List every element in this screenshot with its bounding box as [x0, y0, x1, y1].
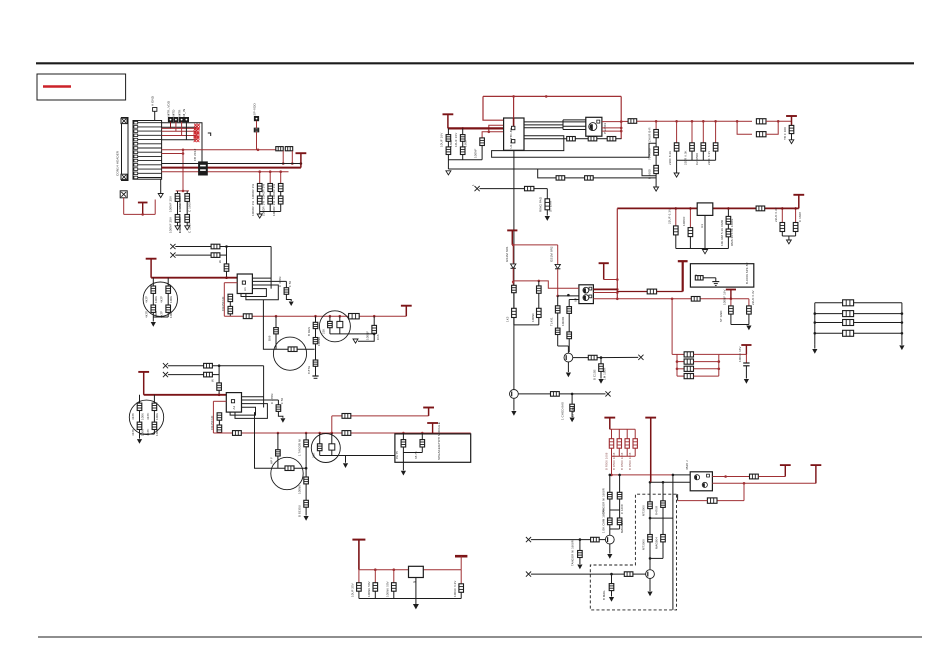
diode D1: [511, 264, 516, 268]
wire b2 col1 stem: [139, 395, 141, 403]
resistor RU6: [750, 474, 759, 479]
wire CV34 gnd stem: [788, 236, 790, 240]
wire RN3 mid: [280, 192, 282, 197]
wire R6 to row6: [256, 132, 258, 150]
resistor R316a: [313, 322, 318, 328]
capacitor CBC3: [392, 583, 397, 592]
node bl rail dots: [814, 312, 817, 315]
svg-text:4K7F: 4K7F: [131, 429, 135, 436]
resistor RD5: [555, 328, 560, 334]
IC A1: [237, 274, 252, 294]
wire lc bottom bus: [448, 159, 482, 161]
wire div link: [610, 509, 620, 511]
node rail2 b2: [329, 315, 332, 318]
feedback nest f2: [252, 280, 286, 282]
ground M2: [401, 471, 406, 476]
power T block2: [138, 372, 149, 395]
wire TRcol5 stem: [715, 121, 717, 143]
wire bccol3 stem: [393, 570, 395, 583]
svg-text:10UF 16V: 10UF 16V: [454, 133, 458, 147]
dashed boundary box: [590, 494, 676, 610]
wire row3 red: [162, 130, 196, 132]
wire br bottom rail: [612, 455, 636, 457]
resistor RBL3: [843, 320, 854, 326]
ground capcol1: [175, 226, 180, 230]
wire U6 out a cont: [758, 476, 785, 478]
svg-text:1: 1: [471, 184, 475, 186]
port P3: [174, 117, 178, 121]
wire U6 out red a: [712, 476, 749, 478]
wire RD7 down: [568, 339, 570, 353]
wire RB22-RB23: [218, 420, 220, 425]
connector J1 mounting pin bottom: [121, 174, 127, 179]
capacitor C1: [175, 194, 180, 202]
svg-text:100NK 50V: 100NK 50V: [367, 581, 371, 597]
wire rung3 right: [694, 368, 719, 370]
wire RT5 join: [766, 121, 778, 134]
wire busline1 black: [162, 163, 301, 165]
wire col276 down: [275, 334, 277, 349]
wire div cols top: [609, 475, 611, 492]
svg-text:MAGB04: MAGB04: [620, 521, 624, 533]
wire brcol4 stem: [634, 429, 636, 438]
wire red loop right: [620, 96, 622, 139]
node chassis: [141, 213, 144, 216]
svg-text:1M 100R: 1M 100R: [602, 368, 606, 380]
hatch row3 end: [194, 128, 200, 134]
svg-text:B R500 1608: B R500 1608: [612, 452, 616, 470]
wire brcol2 stem: [618, 429, 620, 438]
svg-text:C 470N: C 470N: [270, 394, 274, 404]
resistor RL3: [684, 366, 693, 371]
wire U4 out maroon: [593, 288, 617, 290]
wire lc1 top stem: [447, 128, 449, 134]
wire rescol1 top: [259, 172, 261, 184]
wire RB2c down: [218, 390, 220, 395]
svg-text:ST GND: ST GND: [719, 311, 723, 322]
resistor RN1b: [257, 196, 262, 204]
svg-text:100NF: 100NF: [531, 313, 535, 322]
wire b2 in b: [168, 374, 204, 376]
wire D1 down: [512, 268, 514, 285]
box BQ41: [337, 321, 343, 327]
wire red loop top: [483, 95, 621, 97]
port P4: [179, 117, 183, 121]
IC U5: [409, 566, 424, 577]
wire R8 drop to busline1: [291, 151, 293, 164]
wire Q6 gnd stem: [345, 456, 347, 463]
resistor RS3: [607, 137, 616, 141]
svg-text:100NK 50V: 100NK 50V: [385, 581, 389, 597]
svg-text:GS1M 6R2: GS1M 6R2: [550, 246, 554, 262]
resistor RT21a: [137, 403, 142, 410]
resistor RB2b: [204, 372, 213, 377]
wire b2 in b cont: [212, 374, 219, 376]
power T U1 left: [443, 114, 454, 128]
wire U6 pin2 black: [650, 481, 690, 483]
svg-text:B R500 1608: B R500 1608: [604, 452, 608, 470]
component CT5: [713, 143, 718, 151]
connector J1 pins: [134, 121, 138, 178]
wire RD1-RD2: [513, 293, 515, 309]
power T thick: [678, 261, 688, 291]
svg-text:F 50: F 50: [288, 281, 292, 287]
wire chassis right leg: [154, 200, 156, 215]
wire TRcol4 stem: [702, 121, 704, 143]
resistor RL1: [684, 352, 693, 357]
node U1 pin b: [488, 131, 491, 134]
svg-text:100UF 6.3V: 100UF 6.3V: [453, 581, 457, 597]
wire ladder right rail: [718, 354, 720, 376]
node chain1: [649, 517, 652, 520]
node br feed: [672, 474, 675, 477]
ground block2: [137, 439, 142, 444]
transistor Q8: [646, 570, 655, 579]
resistor Rb2rail: [233, 431, 242, 436]
wire RQ8g stem: [611, 574, 613, 584]
wire chain1 mid: [649, 509, 651, 535]
svg-text:MT3000: MT3000: [642, 505, 646, 516]
wire brcol3 stem: [626, 429, 628, 438]
svg-text:4K7F: 4K7F: [160, 296, 164, 303]
svg-text:MAGB04: MAGB04: [655, 537, 659, 549]
svg-text:RING PAD: RING PAD: [539, 196, 543, 212]
wire bccol4 bottom: [460, 592, 462, 598]
node rail2 a: [275, 315, 278, 318]
wire diode rail: [512, 244, 557, 246]
wire red loop left: [483, 96, 504, 120]
wire maroon rail VREG: [617, 207, 799, 209]
connector J1 mounting pin top: [121, 118, 127, 123]
wire RN1 bottom: [259, 204, 261, 212]
svg-text:MTD: MTD: [172, 109, 176, 117]
output X2 right: [605, 391, 610, 396]
wire bl rung2 right: [854, 313, 902, 315]
power T b2 rail2 end: [427, 423, 438, 433]
wire VREG col1 stem: [675, 208, 677, 226]
wire brcol1 bottom: [611, 448, 613, 456]
resistor RBL4: [843, 330, 854, 336]
wire RD6 down: [568, 313, 570, 332]
wire col276 stem: [275, 316, 277, 327]
resistor R306b: [304, 477, 309, 484]
wire b2 cols join: [140, 433, 155, 435]
resistor RQ40: [328, 321, 333, 327]
resistor RB2c vertical: [217, 383, 222, 390]
power T line B: [726, 290, 736, 299]
svg-text:MT3000: MT3000: [642, 539, 646, 550]
wire U2 out red a: [602, 121, 621, 123]
input X br1: [526, 537, 531, 542]
wire capcol2 mid: [186, 201, 188, 214]
node br input1: [579, 538, 582, 541]
transistor circle Q5: [271, 457, 303, 489]
svg-text:4K7F: 4K7F: [146, 429, 150, 436]
node rail2 b: [314, 315, 317, 318]
svg-text:1608: 1608: [463, 140, 467, 147]
svg-text:4K7F: 4K7F: [145, 296, 149, 303]
svg-text:MTR: MTR: [177, 109, 181, 117]
capacitor CB2: [747, 306, 752, 314]
node line B a: [671, 298, 674, 301]
svg-text:SP-VDD: SP-VDD: [252, 103, 256, 116]
legend box: [37, 74, 126, 100]
wire P3 stem: [175, 122, 177, 132]
wire Q4 col0 stem: [329, 316, 331, 321]
component CT2: [674, 143, 679, 151]
ground CB1k: [289, 302, 294, 307]
wire stage1 drop: [567, 346, 569, 353]
wire R316 mid: [315, 329, 317, 338]
capacitor CL1a: [446, 135, 451, 142]
wire RQ7g down: [579, 558, 581, 565]
wire RQ7b to Q7: [599, 539, 605, 541]
power T ladder: [741, 345, 751, 354]
node chain1 b: [649, 557, 652, 560]
wire Q4 col1 stem: [339, 316, 341, 321]
wire stage1 tops: [558, 345, 569, 347]
wire U4 out red b: [593, 292, 617, 294]
bottom rule: [38, 636, 922, 638]
wire lc bottom join: [447, 155, 449, 170]
resistor RBL2: [843, 311, 854, 317]
transistor Q1: [564, 353, 573, 362]
power T diode col: [507, 230, 517, 245]
svg-text:10K0R: 10K0R: [561, 317, 565, 326]
power T rail2 end: [401, 306, 412, 317]
svg-text:TANGOR NI 1608R: TANGOR NI 1608R: [571, 540, 575, 566]
wire b1 in b: [175, 254, 211, 256]
svg-text:R470R: R470R: [655, 506, 659, 515]
wire TRcol3 stem: [691, 121, 693, 143]
wire RN3 bottom: [280, 204, 282, 212]
resistor RT11a: [151, 286, 156, 293]
wire rung4 right: [694, 375, 719, 377]
legend red line: [43, 85, 71, 87]
ground block1: [151, 322, 156, 327]
IC U6: [690, 472, 712, 491]
wire BQ61 bottom: [331, 450, 333, 455]
svg-text:ZHUR B-R: ZHUR B-R: [648, 127, 652, 142]
resistor R316c: [313, 360, 318, 366]
ground R306: [304, 516, 309, 521]
svg-text:CR250 NF: CR250 NF: [221, 296, 225, 311]
wire b2 upper red: [332, 415, 429, 417]
wire TRcol2 down: [676, 151, 678, 160]
node rail pair b: [777, 120, 780, 123]
node ladder dots: [676, 360, 679, 363]
resistor RQ3h: [288, 347, 297, 352]
wire fb tie: [677, 494, 679, 500]
resistor RC1a: [648, 502, 653, 509]
svg-text:4528 J: 4528 J: [685, 460, 689, 470]
capacitor CBC4: [459, 584, 464, 593]
wire b2 col1 bottom: [139, 430, 141, 435]
wire b1 in a: [175, 246, 211, 248]
svg-text:100K: 100K: [140, 429, 144, 436]
svg-text:B MAG: B MAG: [602, 590, 606, 600]
node loop-a: [512, 95, 515, 98]
ground RQ2: [598, 379, 603, 384]
wire cap ladder stem: [745, 354, 747, 363]
wire Q1 out cont: [597, 356, 638, 358]
wire U6 out red b: [712, 482, 816, 484]
node rail2 c: [373, 315, 376, 318]
resistor RD74: [617, 518, 622, 525]
wire nest n1: [492, 136, 656, 157]
resistor RN3a: [278, 184, 283, 192]
wire b2 col2 bottom: [153, 430, 155, 435]
wire RQ8b to Q8: [633, 573, 646, 575]
resistor RD71: [608, 492, 613, 499]
ground TRcol1: [654, 187, 659, 191]
resistor RD3: [537, 308, 542, 317]
wire rail TR after pair: [766, 120, 792, 122]
resistor RX2 vertical: [545, 199, 550, 210]
power T VREG: [793, 195, 804, 209]
wire b2 feedback vert: [263, 366, 265, 408]
resistor RD73: [608, 518, 613, 525]
wire RQ60 bottom: [319, 451, 321, 456]
wire TRcol2 stem: [676, 121, 678, 143]
connector J1 internal pin wires: [138, 123, 162, 178]
wire b2 red rail: [144, 394, 227, 396]
port P6 with resistor: [254, 116, 258, 120]
svg-text:1608: 1608: [449, 140, 453, 147]
resistor RC2b: [661, 535, 666, 542]
svg-text:C 1608: C 1608: [188, 202, 192, 212]
wire bus maroon thick: [162, 167, 301, 169]
wire U4 out red c: [593, 298, 617, 300]
wire chain2 stem: [662, 482, 664, 501]
wire b2 junction vert: [218, 366, 220, 383]
ground Q2: [511, 411, 516, 416]
resistor RV2: [726, 216, 731, 224]
resistor Rb2rail mid: [342, 431, 351, 436]
node D1: [512, 281, 515, 284]
wire b1 in b cont: [220, 254, 227, 256]
wire VREG right caps: [781, 208, 783, 222]
resistor RX1: [525, 186, 534, 190]
wire M2 col1 stem: [402, 433, 404, 440]
resistor RV3: [726, 229, 731, 237]
resistor RBR1: [609, 439, 613, 449]
resistor RT5 lower: [756, 132, 766, 137]
wire RB2-RB3: [229, 302, 231, 307]
ground CV34: [787, 240, 792, 244]
wire U1-U2 black a: [524, 121, 586, 123]
resistor RQ7g: [578, 551, 583, 558]
svg-text:CON14 HEADER: CON14 HEADER: [116, 150, 120, 176]
wire TRcol4 down: [702, 151, 704, 160]
svg-text:4K7F: 4K7F: [145, 311, 149, 318]
wire brcol1 stem: [611, 429, 613, 438]
wire RD5 down: [557, 335, 559, 347]
wire RS1-RS2: [575, 138, 588, 140]
resistor RT12a: [166, 286, 171, 293]
node bus b: [616, 288, 619, 291]
resistor RS1: [567, 137, 576, 141]
wire b2 gnd stem: [139, 434, 141, 439]
wire b1 col1 bottom: [152, 312, 154, 317]
wire P2 stem: [170, 122, 172, 129]
wire RQ7g stem: [579, 540, 581, 551]
IC U1: [504, 118, 524, 150]
node rail pair a: [736, 120, 739, 123]
feedback nest f4: [241, 289, 266, 297]
wire bottom link: [514, 324, 539, 326]
wire nest n3c: [593, 177, 656, 179]
svg-text:10K0R 1%: 10K0R 1%: [251, 201, 255, 216]
box module M2: [395, 434, 471, 462]
svg-text:MTR_VDD: MTR_VDD: [166, 100, 170, 116]
resistor RT22b: [152, 422, 157, 429]
component CT1a: [654, 130, 659, 138]
wire b1 feedback vert: [270, 247, 272, 289]
resistor RB23 vertical: [217, 425, 222, 432]
svg-text:SPEAKER/HPH MODULE: SPEAKER/HPH MODULE: [437, 422, 441, 460]
wire b1 col2 stem: [167, 278, 169, 286]
wire right vert: [672, 475, 674, 610]
ground C374: [353, 339, 358, 343]
svg-text:C16: C16: [376, 334, 380, 340]
wire U4 pincol b: [568, 300, 570, 307]
svg-text:B-CON SPK 8R: B-CON SPK 8R: [745, 262, 749, 284]
wire U1-U2 black c: [524, 127, 563, 129]
resistor RT6: [789, 125, 794, 133]
wire M2 col2 stem: [421, 433, 423, 440]
wire rung1 right: [694, 353, 719, 355]
resistor RB1a: [211, 244, 220, 249]
IC U4 opto dual: [579, 285, 594, 304]
resistor RB1c vertical: [224, 264, 229, 271]
wire chain join: [650, 557, 663, 559]
wire R316 down: [315, 366, 317, 376]
wire b1 red vert: [223, 283, 225, 317]
wire br feed red: [612, 474, 673, 476]
wire diode col left: [512, 245, 514, 263]
node b2rail2 e: [421, 432, 424, 435]
wire RD4 down: [557, 313, 559, 328]
svg-text:1 TAGOR NI: 1 TAGOR NI: [298, 439, 302, 456]
node bc b: [393, 568, 396, 571]
wire fb down: [743, 483, 745, 500]
hatch row4 end: [194, 132, 200, 138]
wire U1 bottom res row: [524, 138, 567, 140]
wire Q2 emitter: [513, 398, 515, 410]
resistor RQ8b: [624, 572, 633, 577]
wire capcol2 bottom: [186, 222, 188, 226]
wire ladder entry: [672, 353, 677, 355]
svg-text:100NF 25V: 100NF 25V: [178, 217, 182, 233]
svg-text:TL431: TL431: [549, 317, 553, 326]
ground Q8: [647, 592, 652, 597]
resistor RN2a: [268, 184, 273, 192]
svg-text:100NK: 100NK: [298, 485, 302, 494]
wire capcol1 bottom: [177, 222, 179, 226]
node bc a: [374, 568, 377, 571]
wire VREG col3 stem: [727, 208, 729, 216]
node b1 rail: [225, 276, 228, 279]
node bus d: [616, 298, 619, 301]
svg-text:C 470N: C 470N: [278, 277, 282, 287]
svg-text:0: 0: [694, 274, 698, 276]
node D2: [556, 295, 559, 298]
wire br drop: [611, 456, 613, 475]
wire bl rung1 left: [815, 302, 843, 304]
feedback nest g3: [235, 404, 267, 419]
wire b2 rail2: [213, 432, 470, 434]
